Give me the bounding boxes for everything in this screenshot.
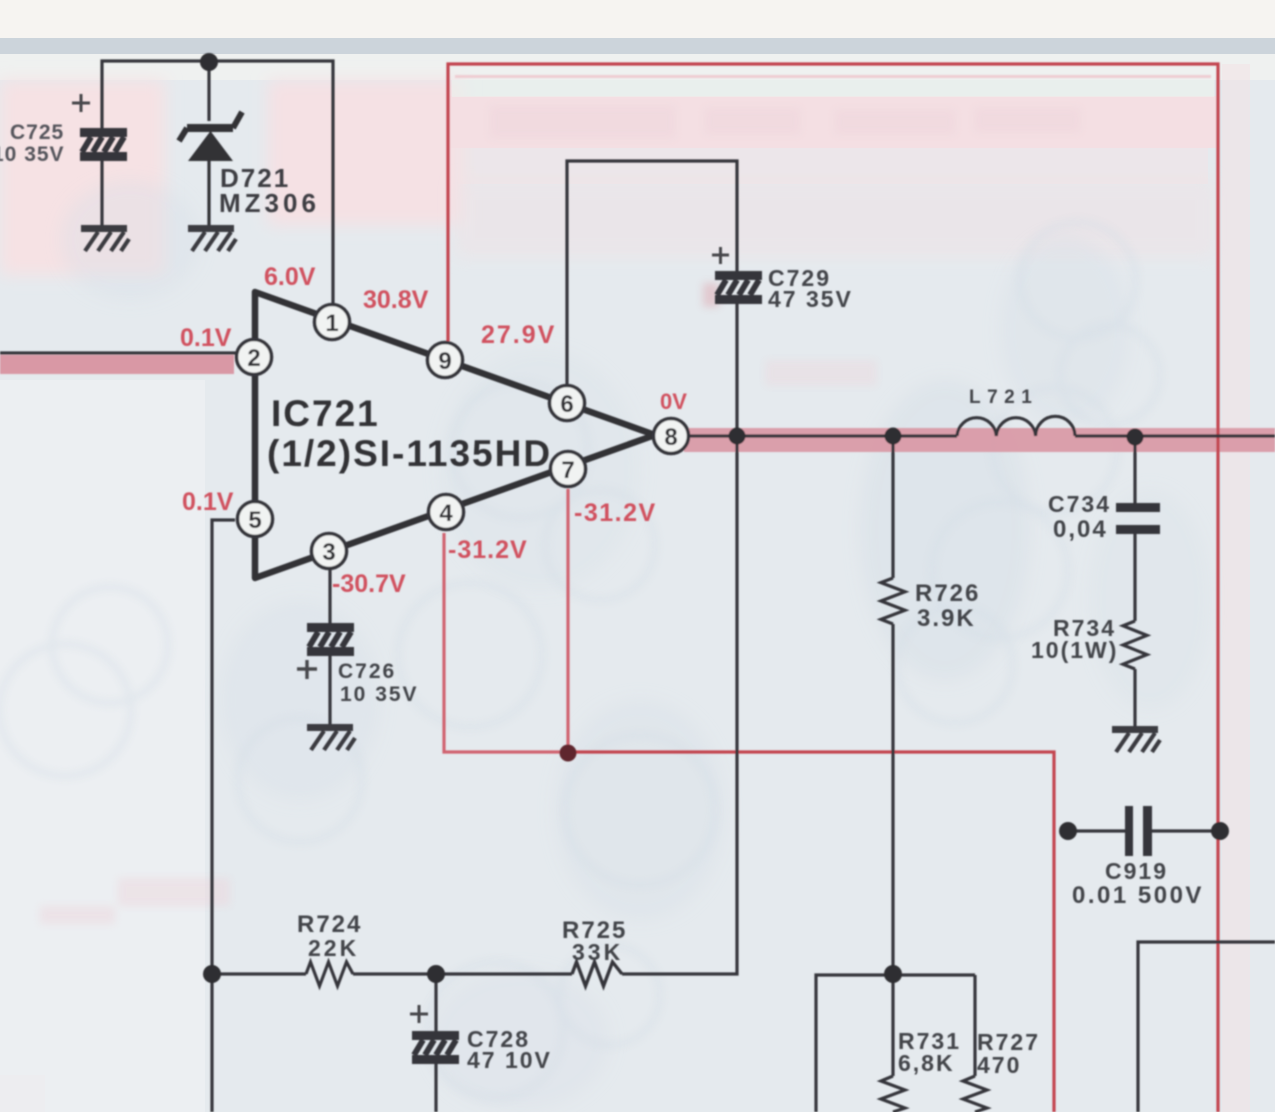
svg-text:47 10V: 47 10V <box>467 1047 552 1073</box>
svg-text:10(1W): 10(1W) <box>1031 637 1118 663</box>
svg-text:5: 5 <box>248 507 261 534</box>
svg-text:27.9V: 27.9V <box>481 321 556 349</box>
svg-text:0.01 500V: 0.01 500V <box>1072 882 1204 909</box>
svg-text:7: 7 <box>561 457 574 484</box>
svg-text:0.1V: 0.1V <box>182 488 234 516</box>
svg-text:470: 470 <box>977 1052 1021 1078</box>
svg-text:R724: R724 <box>297 911 362 938</box>
svg-text:33K: 33K <box>572 939 623 965</box>
svg-text:6: 6 <box>560 391 573 418</box>
svg-text:3: 3 <box>322 539 335 566</box>
svg-text:0.1V: 0.1V <box>180 324 232 352</box>
svg-text:C734: C734 <box>1048 491 1111 517</box>
svg-text:2: 2 <box>247 345 260 372</box>
svg-text:30.8V: 30.8V <box>363 286 429 314</box>
svg-text:C726: C726 <box>338 660 396 683</box>
svg-text:1: 1 <box>325 310 338 337</box>
svg-text:-31.2V: -31.2V <box>448 536 528 564</box>
svg-text:C919: C919 <box>1105 858 1168 884</box>
svg-text:3.9K: 3.9K <box>917 605 976 632</box>
svg-text:MZ306: MZ306 <box>219 188 320 218</box>
svg-text:-30.7V: -30.7V <box>332 570 406 598</box>
svg-text:C725: C725 <box>10 121 64 144</box>
svg-text:47 35V: 47 35V <box>768 286 853 312</box>
svg-text:10 35V: 10 35V <box>340 683 419 706</box>
svg-text:8: 8 <box>664 424 677 451</box>
svg-text:4: 4 <box>439 500 453 527</box>
svg-text:-31.2V: -31.2V <box>574 499 657 527</box>
svg-text:(1/2)SI-1135HD: (1/2)SI-1135HD <box>267 433 552 474</box>
svg-text:10 35V: 10 35V <box>0 143 65 166</box>
svg-text:6.0V: 6.0V <box>264 263 316 291</box>
svg-text:6,8K: 6,8K <box>898 1050 955 1076</box>
svg-text:9: 9 <box>438 348 451 375</box>
svg-text:22K: 22K <box>308 935 359 961</box>
svg-text:0V: 0V <box>660 389 687 414</box>
svg-text:0,04: 0,04 <box>1053 516 1108 543</box>
svg-text:L721: L721 <box>969 387 1038 408</box>
svg-text:IC721: IC721 <box>271 393 380 434</box>
svg-text:R726: R726 <box>915 580 980 607</box>
